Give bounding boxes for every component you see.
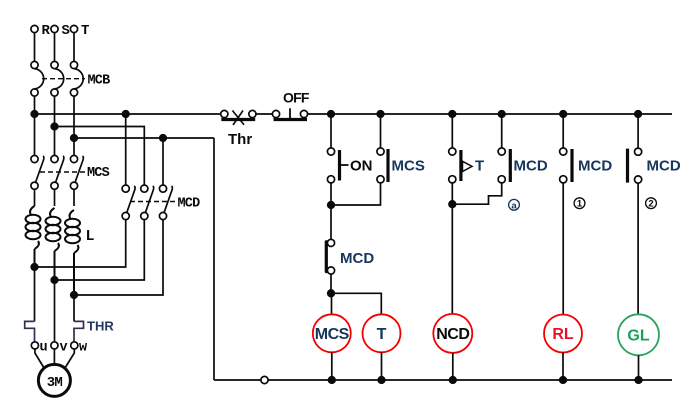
breaker MCB pole 2 [51, 61, 64, 96]
svg-text:T: T [377, 326, 387, 343]
wire MCD pole1 drop [125, 114, 127, 185]
svg-text:THR: THR [87, 319, 114, 334]
wire node to MCD NC [330, 205, 332, 239]
svg-text:MCD: MCD [514, 158, 548, 175]
node bus B3 [560, 111, 567, 118]
wire bus to MCD 2 [637, 114, 639, 148]
inductor L phase 3 [65, 210, 80, 295]
terminal v [51, 342, 58, 349]
svg-text:ON: ON [350, 158, 373, 175]
overload relay THR heater phase3 [74, 321, 84, 341]
svg-text:R: R [42, 23, 51, 39]
MCS linkage dashed [40, 171, 85, 173]
svg-text:a: a [511, 200, 517, 211]
svg-text:MCS: MCS [315, 326, 350, 343]
svg-text:RL: RL [552, 326, 574, 343]
wire MCD pole1 return [35, 220, 126, 267]
coil MCS [313, 314, 351, 352]
node rail NCD [450, 377, 457, 384]
wire MCB pole1 down to MCS [34, 96, 36, 155]
node T [70, 25, 77, 32]
node rail MCS [329, 377, 336, 384]
wire T tap across [74, 137, 214, 139]
node bus B1b [377, 111, 384, 118]
wire u to motor [35, 349, 44, 368]
svg-text:v: v [60, 341, 68, 356]
pushbutton ON [327, 148, 348, 183]
contact MCD a [498, 148, 510, 183]
wire MCS pole2 to coil [54, 189, 56, 206]
contact MCD NC [326, 239, 335, 274]
svg-text:MCS: MCS [392, 158, 425, 175]
wire MCD pole2 return [55, 220, 145, 280]
node coil split [328, 290, 335, 297]
wire timer contact join [451, 183, 453, 204]
inductor L phase 2 [46, 208, 61, 280]
wire S to MCB [54, 33, 56, 62]
wire phase1 to THR [34, 267, 36, 321]
label circled 1 [574, 198, 585, 210]
wire v to motor [53, 349, 55, 364]
node bus B2a [449, 111, 456, 118]
wire bus to MCD a [501, 114, 503, 148]
svg-text:u: u [40, 341, 48, 356]
node coil1 junction [31, 264, 38, 271]
wire MCS pole3 to coil [73, 189, 75, 206]
node bus B2b [498, 111, 505, 118]
wire GL to rail [638, 355, 640, 380]
contactor MCS pole 3 [70, 155, 83, 189]
wire ON to node [330, 183, 332, 205]
wire MCS aux join [331, 183, 381, 205]
wire MCD 2 to GL [637, 183, 639, 314]
wire phase2 to THR [54, 280, 56, 342]
wire phase3 to THR [73, 295, 75, 321]
svg-text:GL: GL [627, 328, 649, 345]
node tap T [71, 135, 78, 142]
node coil3 junction [71, 292, 78, 299]
node R [31, 25, 38, 32]
wire MCS coil to rail [331, 352, 333, 380]
svg-text:3M: 3M [47, 375, 63, 391]
svg-text:S: S [62, 23, 70, 39]
pushbutton OFF [272, 108, 307, 119]
wire T to MCB [73, 33, 75, 62]
svg-text:T: T [81, 23, 89, 39]
connector on bottom rail [261, 376, 268, 383]
wire MCD pole3 return [74, 220, 163, 295]
wire to MCS coil [331, 293, 333, 314]
node tap MCD pole3 [160, 135, 167, 142]
wire bus to MCS aux [380, 114, 382, 148]
wire bus to MCD 1 [562, 114, 564, 148]
wire bus to ON [330, 114, 332, 148]
timer coil T [363, 314, 401, 352]
svg-text:T: T [475, 158, 484, 175]
wire NCD to rail [452, 353, 454, 380]
node tap S [51, 123, 58, 130]
lamp RL [544, 315, 582, 353]
wire to T coil [331, 293, 381, 314]
node rail T [378, 377, 385, 384]
contact MCD 2 [628, 148, 642, 183]
wire MCB pole3 down to MCS [73, 96, 75, 155]
svg-text:MCD: MCD [340, 250, 374, 267]
wire MCS pole1 to coil [34, 189, 36, 206]
terminal w [71, 342, 78, 349]
node rail RL [560, 377, 567, 384]
lamp GL [618, 314, 659, 355]
node B1 join [328, 202, 335, 209]
wire node to NCD coil [451, 204, 453, 314]
thermal contact Thr [221, 110, 256, 125]
svg-text:w: w [79, 341, 88, 356]
contactor MCD pole 3 [159, 185, 172, 220]
wire rail to Thr [35, 113, 221, 115]
node coil2 junction [51, 277, 58, 284]
MCD linkage dashed [130, 201, 175, 203]
svg-text:MCD: MCD [178, 197, 201, 212]
wire bus to timer contact [451, 114, 453, 148]
wire T coil to rail [381, 352, 383, 380]
contact MCD 1 [560, 148, 572, 183]
contactor MCD pole 2 [141, 185, 154, 220]
node tap MCD pole1 [122, 111, 129, 118]
node S [51, 25, 58, 32]
wire RL to rail [562, 353, 564, 381]
wire down right side to bottom rail [213, 138, 215, 380]
contactor MCS pole 1 [31, 155, 44, 189]
wire w to motor [65, 349, 74, 368]
node bus B1a [328, 111, 335, 118]
svg-text:NCD: NCD [436, 326, 469, 343]
inductor L phase 1 [26, 206, 41, 267]
coil NCD [433, 314, 472, 353]
breaker MCB pole 1 [31, 61, 44, 96]
wire MCD NC to coil node [330, 274, 332, 293]
node B2 join [449, 201, 456, 208]
svg-text:1: 1 [577, 199, 583, 210]
svg-text:MCB: MCB [88, 74, 111, 89]
label circled 2 [646, 198, 657, 210]
wire MCB pole2 down to MCS [54, 96, 56, 155]
motor 3M [38, 364, 70, 396]
node bus B4 [635, 111, 642, 118]
wire bottom rail [214, 379, 672, 381]
label circled a [509, 199, 520, 211]
node tap R [31, 111, 38, 118]
wire Thr to OFF [256, 113, 272, 115]
wire R to MCB [34, 33, 36, 62]
node rail GL [635, 377, 642, 384]
contact MCS aux [377, 148, 388, 183]
wire MCD 1 to RL [562, 183, 564, 315]
timer contact T [449, 148, 472, 183]
svg-text:2: 2 [648, 199, 653, 210]
overload relay THR heater phase1 [25, 321, 35, 341]
contactor MCD pole 1 [122, 185, 135, 220]
wire MCD pole3 tap drop [162, 138, 164, 185]
wire MCD a join [452, 183, 501, 204]
svg-text:MCD: MCD [578, 158, 612, 175]
wire control bus [308, 113, 672, 115]
svg-text:MCD: MCD [647, 158, 681, 175]
svg-text:Thr: Thr [228, 131, 252, 148]
terminal u [31, 342, 38, 349]
svg-text:L: L [86, 228, 95, 245]
breaker MCB pole 3 [70, 61, 83, 96]
contactor MCS pole 2 [51, 155, 64, 189]
svg-text:MCS: MCS [87, 166, 110, 181]
wire S tap to MCD pole2 [55, 127, 145, 186]
svg-text:OFF: OFF [283, 90, 310, 106]
MCB linkage dashed [42, 78, 85, 80]
